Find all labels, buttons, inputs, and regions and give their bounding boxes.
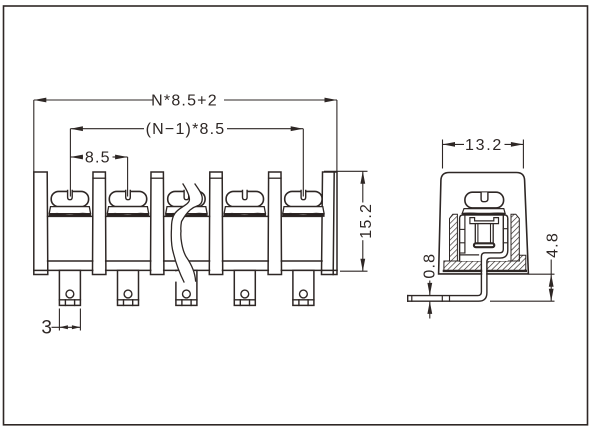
front view: body bottom line, bay 3 bbox=[164, 269, 210, 271]
terminal 2: screw slot bbox=[126, 190, 131, 199]
side view: shank thread end bar (dark) bbox=[474, 243, 494, 247]
dimension 15.2: top arrow bbox=[360, 171, 365, 184]
side view: metal strip inner edge (cage right wall to foot top) bbox=[408, 215, 504, 295]
dimension 8.5: left arrow bbox=[70, 155, 83, 160]
dimension N*8.5+2: right arrow bbox=[325, 98, 338, 103]
dimension 15.2: top extension line bbox=[324, 170, 368, 172]
side view: white mask where pin crosses bottom wall lines bbox=[482, 259, 486, 302]
side view: bottom wall hatch (left part) bbox=[444, 261, 482, 271]
svg-text:4.8: 4.8 bbox=[544, 232, 561, 258]
terminal 4: screw head bbox=[226, 191, 263, 206]
dimension 13.2: left arrow bbox=[443, 142, 456, 147]
dimension (N&#8722;1)*8.5: right extension line into screw 5 slot bbox=[302, 129, 304, 197]
dimension 0.8: lower arrow bbox=[427, 301, 432, 314]
dimension N*8.5+2: line bbox=[34, 99, 153, 101]
terminal 1: screw slot bbox=[68, 190, 73, 199]
front view: shelf line, bay 5 bbox=[281, 215, 322, 217]
terminal 1: screw head bbox=[51, 191, 88, 206]
front view: body bottom line across left wall bbox=[34, 269, 48, 271]
side view: bottom wall heavy edge right bbox=[487, 270, 526, 272]
side view: metal strip outer edge (cage right wall to foot bottom) bbox=[408, 220, 508, 302]
dimension N*8.5+2: right extension line bbox=[336, 100, 338, 172]
dimension 4.8: top arrow bbox=[549, 274, 554, 287]
side view: foot left end cap bbox=[407, 296, 409, 302]
side view: screw head bbox=[465, 192, 504, 208]
dimension 0.8: line above foot bbox=[429, 281, 431, 296]
terminal 5: washer plate bbox=[283, 207, 324, 214]
dimension 8.5: right arrow bbox=[115, 155, 128, 160]
break squiggle: mask over pin 3 upper-left edge bbox=[174, 271, 178, 281]
dimension 4.8: bottom extension line bbox=[490, 300, 555, 302]
svg-text:N*8.5+2: N*8.5+2 bbox=[151, 92, 218, 109]
side view: washer plate bbox=[462, 209, 505, 214]
pin 1: body bbox=[59, 270, 80, 305]
separator wall 5: top cap line bbox=[269, 177, 281, 179]
front view: body bottom line, bay 1 bbox=[48, 269, 93, 271]
dimension 15.2: bottom arrow bbox=[360, 259, 365, 272]
front view: body recess bottom line, bay 3 bbox=[164, 260, 210, 262]
pin 3: hole bbox=[183, 290, 191, 298]
separator wall 4: top cap line bbox=[210, 177, 222, 179]
dimension 4.8: line bbox=[550, 260, 552, 302]
dimension 3: right arrow bbox=[72, 325, 81, 329]
side view: cage left wall rung 1 bbox=[460, 228, 465, 230]
pin 4: hole bbox=[241, 290, 249, 298]
front view: right end wall bbox=[322, 172, 338, 275]
dimension 0.8: upper arrow bbox=[427, 283, 432, 296]
dimension (N&#8722;1)*8.5: line bbox=[70, 128, 144, 130]
pin 2: hole bbox=[124, 290, 132, 298]
dimension 0.8: line below foot bbox=[429, 301, 431, 318]
side view: cage right wall rung 2 bbox=[503, 242, 508, 244]
side view: shank left inner line bbox=[477, 224, 479, 246]
side view: screw shank bbox=[475, 224, 493, 248]
front view: body bottom line across right wall bbox=[322, 269, 338, 271]
dimension 13.2: right extension line bbox=[522, 140, 524, 169]
side view: cage left inner wall bbox=[464, 215, 466, 253]
pin 1: crimp band bbox=[59, 299, 80, 301]
side view: cage outline (left wall and top) bbox=[460, 215, 508, 261]
side view: clamp cage white interior bbox=[460, 215, 508, 261]
dimension N*8.5+2: left extension line bbox=[33, 100, 35, 172]
pin 5: hole bbox=[300, 290, 308, 298]
terminal 5: screw slot bbox=[301, 190, 306, 199]
terminal 4: screw slot bbox=[243, 190, 248, 199]
terminal 2: clamp strip (dark) bbox=[107, 213, 148, 216]
front view: separator wall 5 bbox=[268, 172, 281, 275]
dimension 13.2: right arrow bbox=[511, 142, 524, 147]
side view: foot tick mark 1 bbox=[441, 296, 443, 302]
front view: right end wall inner edge bbox=[333, 172, 334, 275]
front view: body recess bottom line, bay 1 bbox=[48, 260, 93, 262]
terminal 1: washer plate bbox=[49, 207, 90, 214]
dimension (N&#8722;1)*8.5: left extension line into screw 1 slot bbox=[69, 129, 71, 197]
terminal 1: clamp strip (dark) bbox=[49, 213, 90, 216]
front view: body bottom line, bay 2 bbox=[106, 269, 151, 271]
svg-text:3: 3 bbox=[41, 318, 52, 339]
front view: shelf line, bay 3 bbox=[164, 215, 210, 217]
terminal 2: washer plate bbox=[107, 207, 148, 214]
side view: cage right wall rung 1 bbox=[503, 228, 508, 230]
terminal 2: screw head bbox=[109, 191, 146, 206]
svg-text:8.5: 8.5 bbox=[85, 149, 111, 166]
pin 2: body bbox=[118, 270, 139, 305]
front view: body bottom line, bay 4 bbox=[223, 269, 269, 271]
dimension (N&#8722;1)*8.5: left arrow bbox=[70, 126, 83, 131]
dimension 8.5: line bbox=[70, 156, 83, 158]
front view: shelf line, bay 1 bbox=[48, 215, 93, 217]
dimension (N&#8722;1)*8.5: right arrow bbox=[291, 126, 304, 131]
front view: shelf line, bay 2 bbox=[106, 215, 151, 217]
svg-text:15.2: 15.2 bbox=[358, 203, 375, 239]
front view: separator wall 3 bbox=[151, 172, 164, 275]
side view: cage left wall rung 2 bbox=[460, 242, 465, 244]
front view: body recess bottom line, bay 5 bbox=[281, 260, 322, 262]
pin 1: hole bbox=[66, 290, 74, 298]
dimension 13.2: line bbox=[443, 143, 465, 145]
terminal 3: clamp strip (dark) bbox=[166, 213, 207, 216]
side view: foot tick mark 2 bbox=[449, 296, 451, 302]
svg-text:(N−1)*8.5: (N−1)*8.5 bbox=[146, 121, 226, 138]
dimension N*8.5+2: left arrow bbox=[34, 98, 47, 103]
dimension 3: left arrow bbox=[59, 325, 68, 329]
terminal 5: screw head bbox=[285, 191, 322, 206]
front view: body recess bottom line, bay 2 bbox=[106, 260, 151, 262]
break squiggle: right edge bbox=[181, 184, 203, 281]
dimension 3: left extension line bbox=[58, 309, 60, 331]
side view: screw slot bbox=[481, 192, 488, 201]
side view: bottom wall hatch (right part) bbox=[487, 255, 526, 271]
pin 4: crimp band bbox=[234, 299, 255, 301]
side view: cage floor line bbox=[460, 254, 479, 256]
side view: shank right inner line bbox=[490, 224, 492, 246]
pin 3: body bbox=[176, 270, 197, 305]
side view: body outline bbox=[439, 173, 529, 274]
side view: right wall hatch block bbox=[511, 214, 519, 261]
svg-text:0.8: 0.8 bbox=[422, 253, 439, 279]
terminal 5: clamp strip (dark) bbox=[283, 213, 324, 216]
terminal 4: washer plate bbox=[224, 207, 265, 214]
dimension 15.2: line bbox=[362, 171, 364, 202]
terminal 3: screw slot bbox=[184, 190, 189, 199]
dimension 8.5: extension line into screw 2 slot bbox=[127, 157, 129, 197]
dimension 4.8: bottom arrow bbox=[549, 289, 554, 302]
front view: body recess bottom line, bay 4 bbox=[223, 260, 269, 262]
front view: shelf line, bay 4 bbox=[223, 215, 269, 217]
side view: clamp top plate (channel with raised ends) bbox=[470, 218, 499, 224]
dimension 4.8: top extension line bbox=[529, 273, 555, 275]
separator wall 3: top cap line bbox=[151, 177, 163, 179]
terminal 4: clamp strip (dark) bbox=[224, 213, 265, 216]
break squiggle (continuation mark) over terminal 3: white mask bbox=[171, 184, 202, 282]
dimension 13.2: left extension line bbox=[442, 140, 444, 169]
pin 4: body bbox=[234, 270, 255, 305]
break squiggle: left edge bbox=[171, 184, 189, 282]
front view: separator wall 4 bbox=[209, 172, 222, 275]
side view: bottom wall heavy edge left bbox=[444, 270, 482, 272]
pin 5: body bbox=[293, 270, 314, 305]
side view: washer dark edge bbox=[462, 213, 505, 215]
side view: left wall hatch block bbox=[450, 214, 458, 261]
pin 2: crimp band bbox=[118, 299, 139, 301]
separator wall 2: top cap line bbox=[93, 177, 105, 179]
terminal 3: washer plate bbox=[166, 207, 207, 214]
front view: left end wall bbox=[34, 172, 48, 275]
pin 3: crimp band bbox=[176, 299, 197, 301]
dimension 3: right extension line bbox=[79, 309, 81, 331]
dimension 15.2: bottom extension line bbox=[340, 270, 368, 272]
side view: foot inner end line bbox=[411, 296, 413, 302]
dimension 3: line bbox=[52, 326, 81, 328]
pin 5: crimp band bbox=[293, 299, 314, 301]
front view: body bottom line, bay 5 bbox=[281, 269, 322, 271]
svg-text:13.2: 13.2 bbox=[465, 137, 503, 154]
terminal 3: screw head bbox=[168, 191, 205, 206]
front view: separator wall 2 bbox=[93, 172, 106, 275]
side view: cage left wall rung 3 bbox=[460, 252, 465, 254]
